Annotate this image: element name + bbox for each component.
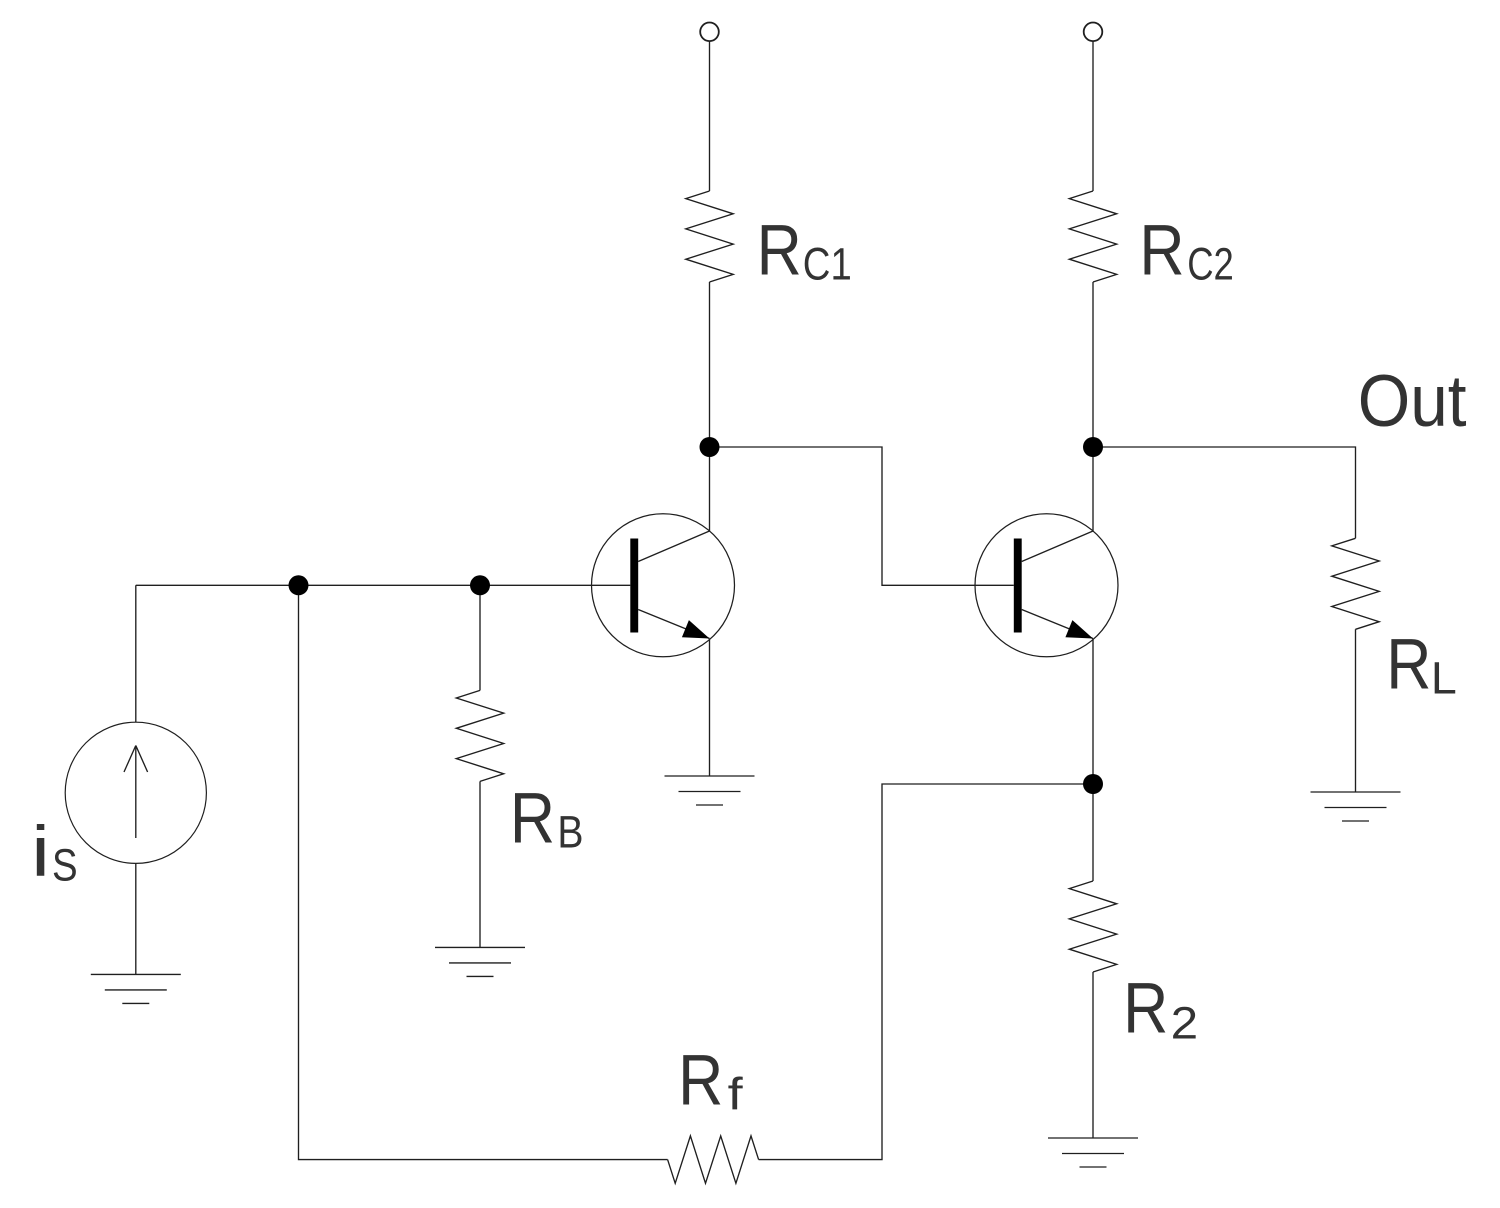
svg-text:S: S [52, 840, 78, 891]
svg-text:Out: Out [1358, 360, 1467, 442]
svg-text:i: i [31, 812, 50, 892]
svg-text:L: L [1431, 653, 1457, 703]
svg-text:R: R [757, 211, 802, 291]
svg-text:B: B [557, 807, 583, 857]
svg-text:f: f [728, 1069, 743, 1120]
svg-text:C2: C2 [1187, 239, 1234, 290]
svg-text:R: R [1386, 625, 1431, 705]
svg-text:R: R [678, 1041, 723, 1121]
svg-text:R: R [1123, 969, 1168, 1049]
svg-text:R: R [510, 779, 555, 859]
svg-text:R: R [1139, 211, 1184, 291]
svg-text:C1: C1 [803, 238, 852, 289]
svg-text:2: 2 [1171, 998, 1199, 1048]
